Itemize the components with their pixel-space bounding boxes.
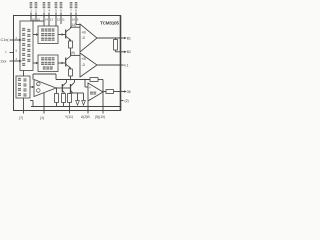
transistor Q1 [65,30,67,39]
node amp input [84,79,86,81]
svg-text:08: 08 [127,90,131,94]
pin 6 tick (top) [60,13,62,17]
svg-text:(2): (2) [125,99,129,103]
svg-text:13: 13 [50,18,54,22]
left pin stub B [10,52,15,54]
arrowhead output pin [124,90,126,93]
A2 output wire [97,64,121,66]
right pin stub B2 [121,51,125,53]
op-amp A2 [80,53,97,77]
svg-text:TCM3105: TCM3105 [100,21,119,26]
arrowhead into Q2 [62,62,65,64]
feedback path wire [33,73,56,75]
amp bottom pin wire [87,101,89,114]
op-amp A1 [80,24,97,52]
wire pin4 down [48,16,50,26]
node wire down [102,80,104,114]
wire under comparator [43,93,45,114]
arrow block to preamp2 [33,62,37,64]
svg-text:Y(11): Y(11) [65,115,73,119]
IC outline [14,16,121,111]
wire pin3 down [43,16,45,26]
comparator output wire [56,87,62,89]
resistor R4 [90,78,98,82]
Q2 emitter arrowhead [69,66,71,69]
input control block text + comparator block text [18,28,31,97]
Q1 collector wire [71,26,81,28]
preamp block ch1 [38,26,58,44]
svg-text:+B: +B [82,31,87,35]
svg-text:14: 14 [45,18,49,22]
arrow preamp2 to Q2 [58,62,65,64]
svg-text:B2: B2 [127,50,131,54]
arrow into input block top [14,39,19,41]
svg-text:-: - [37,89,38,93]
arrowhead input A [19,39,22,42]
right pin stub B1 [121,37,125,39]
node B2 [120,51,122,53]
node A2 out [120,64,122,66]
top pin labels (vertical, pins 1-8) [30,2,78,13]
svg-text:10: 10 [72,18,76,22]
Q1 emitter arrowhead [69,38,71,41]
pin 1 tick (top) [30,13,32,17]
base wire [62,87,70,89]
comparator input circle - [37,89,41,93]
svg-text:(14): (14) [71,23,77,27]
svg-text:-D: -D [82,63,86,67]
svg-text:2xx: 2xx [1,60,7,64]
svg-text:+B: +B [82,57,87,61]
Q2 collector wire [71,54,81,56]
arrow preamp1 to Q1 [58,34,65,36]
wire tallblock to comparator [23,71,25,77]
wire pin7 down [70,16,72,27]
arrow comparator to opamp [30,86,34,88]
svg-text:+: + [89,86,91,90]
svg-text:(1): (1) [40,116,44,120]
node comparator out [56,87,58,89]
resistor R5 [55,94,59,103]
pin 4 tick (top) [48,13,50,17]
power amp triangle [88,83,103,101]
arrowhead into comparator [32,86,35,88]
svg-text:T: T [5,51,7,55]
comparator triangle [34,80,56,97]
resistor R8 [106,90,114,94]
wire pin6 down [60,16,62,24]
preamp block1 + block2 text [41,28,54,69]
wire pin8 down [75,16,77,25]
arrowhead into preamp2 [36,62,39,64]
pin 8 tick (top) [75,13,77,17]
svg-text:11: 11 [62,18,65,22]
svg-text:C1x(: C1x( [1,38,10,42]
resistor R2 [69,69,73,76]
resistor R6 [62,94,66,103]
wire top connector [33,20,44,22]
right pin stub mid [121,64,124,66]
svg-text:-: - [89,97,90,101]
current source arrow 2 [83,93,85,101]
comparator block lower-left [16,76,30,98]
arrowhead into preamp1 [36,33,39,35]
svg-text:B1: B1 [127,36,131,40]
resistor R3 [114,40,118,51]
transistor Q4 [70,84,72,93]
node rail-feedback [102,106,104,108]
amp input jog [84,80,86,88]
ground rail [31,106,120,108]
node rail-border [120,106,122,108]
svg-text:(5)(10): (5)(10) [95,115,105,119]
pin 5 tick (top) [55,13,57,17]
svg-text:16: 16 [32,18,36,22]
node R2 bottom [70,79,72,81]
resistor R7 [68,94,72,103]
node feedback-out [102,91,104,93]
wire pin2 down [35,16,37,21]
arrowhead pin B1 [124,37,126,40]
arrowhead input B [19,60,22,63]
preamp block ch2 [38,55,58,72]
pin 3 tick (top) [43,13,45,17]
svg-text:+: + [37,82,39,86]
svg-text:(7): (7) [19,116,23,120]
svg-text:A(2)B: A(2)B [81,115,90,119]
arrowhead into Q1 [62,33,65,35]
svg-text:12: 12 [57,18,61,22]
svg-text:15: 15 [37,18,41,22]
comparator input circle + [37,82,41,86]
arrow block to preamp1 [33,34,37,36]
A1 output wire [97,37,121,39]
pin 7 tick (top) [70,13,72,17]
pin 2 tick (top) [35,13,37,17]
wire pin1 down [30,16,32,21]
arrowhead pin B2 [124,51,126,54]
input control block [20,21,33,71]
node output [120,91,122,93]
svg-text:4.1: 4.1 [124,63,129,67]
pin wire comparator block [23,98,25,114]
node B1 [120,37,122,39]
node Q1 collector [70,26,72,28]
left pin stub C [10,60,15,62]
right pin stub output [121,91,125,93]
current source arrow 1 [77,93,79,101]
amp output [103,91,106,93]
right pin stub lower [121,100,124,102]
svg-text:-D: -D [82,36,86,40]
power amp text [90,92,96,95]
transistor Q2 [65,58,67,67]
transistor Q3 [61,84,63,93]
svg-text:(9): (9) [71,51,75,55]
resistor R1 [69,41,73,48]
left pin stub A [10,39,15,41]
arrow into input block bottom [14,60,19,62]
bottom pin ticks [69,107,71,114]
wire pin5 down [55,16,57,26]
